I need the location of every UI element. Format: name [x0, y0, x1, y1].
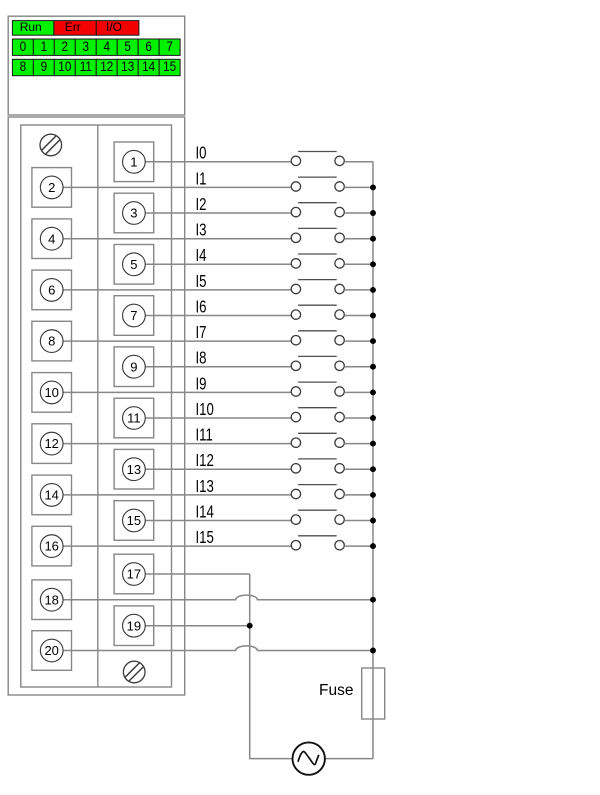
terminal 9 cell: [114, 347, 154, 387]
svg-text:18: 18: [44, 592, 58, 607]
svg-text:15: 15: [163, 58, 176, 74]
junction I6 on supply bus: [370, 313, 376, 319]
junction terminal 20 wire on supply bus: [370, 648, 376, 654]
channel LED 12: [96, 58, 117, 75]
junction I1 on supply bus: [370, 184, 376, 190]
AC source G1: [293, 742, 325, 774]
terminal 14 cell: [32, 475, 72, 515]
terminal 6: [40, 279, 63, 302]
terminal 2 cell: [32, 168, 72, 208]
svg-text:11: 11: [127, 411, 141, 426]
LED label I/O: [96, 20, 139, 35]
mounting screw bottom: [123, 661, 145, 683]
wire contact I4 to supply bus: [344, 263, 373, 265]
terminal 8 cell: [32, 321, 72, 361]
terminal 7: [123, 304, 146, 327]
mounting screw top: [40, 134, 62, 156]
LED label Run: [12, 20, 54, 35]
terminal 1 cell: [114, 142, 154, 182]
wire contact I3 to supply bus: [344, 238, 373, 240]
wire terminal 7 to contact I6: [145, 315, 291, 317]
svg-text:17: 17: [127, 567, 141, 582]
supply bus (right vertical): [372, 162, 374, 759]
wire terminal 17 to node A: [145, 573, 249, 575]
switch contact I2: [291, 203, 344, 217]
svg-text:3: 3: [83, 38, 90, 54]
channel LED 1: [33, 38, 54, 55]
svg-text:0: 0: [20, 38, 27, 54]
svg-text:I7: I7: [196, 323, 207, 342]
wire terminal 13 to contact I12: [145, 468, 291, 470]
wire terminal 4 to contact I3: [63, 238, 291, 240]
svg-text:2: 2: [48, 180, 55, 195]
wire terminal 15 to contact I14: [145, 520, 291, 522]
terminal 17 cell: [114, 554, 154, 594]
terminal 12 cell: [32, 424, 72, 464]
svg-text:I13: I13: [196, 477, 214, 496]
wire contact I11 to supply bus: [344, 443, 373, 445]
svg-text:I0: I0: [196, 144, 207, 163]
junction I4 on supply bus: [370, 261, 376, 267]
terminal 13: [123, 458, 146, 481]
svg-text:I/O: I/O: [106, 20, 122, 34]
svg-text:Err: Err: [65, 20, 81, 34]
wire terminal 20 to supply bus (hop over node A): [63, 646, 373, 651]
wire contact I14 to supply bus: [344, 520, 373, 522]
wire terminal 19 to node A junction: [145, 625, 249, 627]
terminal 2: [40, 176, 63, 199]
svg-text:6: 6: [145, 38, 152, 54]
svg-text:I11: I11: [196, 426, 213, 445]
terminal 5: [123, 253, 146, 276]
switch contact I15: [291, 536, 344, 550]
svg-text:20: 20: [44, 643, 58, 658]
svg-text:I3: I3: [196, 221, 207, 240]
wire terminal 11 to contact I10: [145, 417, 291, 419]
module outer body: [8, 117, 185, 695]
terminal 10 cell: [32, 373, 72, 413]
wire terminal 10 to contact I9: [63, 391, 291, 393]
svg-text:1: 1: [41, 38, 48, 54]
wire contact I15 to supply bus: [344, 545, 373, 547]
junction I14 on supply bus: [370, 518, 376, 524]
svg-text:9: 9: [130, 359, 137, 374]
wire terminal 3 to contact I2: [145, 212, 291, 214]
terminal 15 cell: [114, 501, 154, 541]
channel LED 7: [159, 38, 180, 55]
terminal 4 cell: [32, 219, 72, 259]
terminal 3 cell: [114, 193, 154, 233]
svg-text:5: 5: [130, 257, 137, 272]
svg-text:Run: Run: [20, 20, 42, 34]
switch contact I10: [291, 408, 344, 422]
svg-text:14: 14: [44, 488, 58, 503]
terminal 15: [123, 509, 146, 532]
switch contact I1: [291, 177, 344, 191]
wire contact I8 to supply bus: [344, 366, 373, 368]
svg-text:4: 4: [48, 231, 55, 246]
wire contact I1 to supply bus: [344, 186, 373, 188]
svg-text:9: 9: [41, 58, 48, 74]
module status/LED box: [8, 16, 185, 115]
svg-text:2: 2: [62, 38, 69, 54]
wire terminal 14 to contact I13: [63, 494, 291, 496]
wire contact I6 to supply bus: [344, 315, 373, 317]
switch contact I9: [291, 382, 344, 396]
terminal 16: [40, 535, 63, 558]
junction I5 on supply bus: [370, 287, 376, 293]
svg-text:13: 13: [127, 462, 141, 477]
svg-text:6: 6: [48, 283, 55, 298]
svg-text:I12: I12: [196, 451, 214, 470]
svg-text:I10: I10: [196, 400, 214, 419]
svg-text:I2: I2: [196, 195, 207, 214]
LED label Err: [54, 20, 96, 35]
svg-text:Fuse: Fuse: [319, 682, 353, 699]
svg-text:16: 16: [44, 539, 58, 554]
switch contact I0: [291, 152, 344, 166]
wire terminal 8 to contact I7: [63, 340, 291, 342]
terminal 12: [40, 432, 63, 455]
switch contact I11: [291, 433, 344, 447]
channel LED 9: [33, 58, 54, 75]
channel LED 10: [54, 58, 75, 75]
svg-text:I1: I1: [196, 170, 207, 189]
terminal 14: [40, 484, 63, 507]
channel LED 5: [117, 38, 138, 55]
wire terminal 6 to contact I5: [63, 289, 291, 291]
terminal 7 cell: [114, 296, 154, 336]
wire terminal 9 to contact I8: [145, 366, 291, 368]
fuse F1: [362, 668, 385, 719]
junction I10 on supply bus: [370, 415, 376, 421]
wire terminal 16 to contact I15: [63, 545, 291, 547]
terminal 11: [123, 407, 146, 430]
junction I7 on supply bus: [370, 338, 376, 344]
junction I2 on supply bus: [370, 210, 376, 216]
channel LED 0: [12, 38, 33, 55]
wire AC source to supply bus: [325, 758, 373, 760]
junction I11 on supply bus: [370, 441, 376, 447]
terminal 20 cell: [32, 631, 72, 671]
channel LED 11: [75, 58, 96, 75]
svg-text:5: 5: [124, 38, 131, 54]
switch contact I3: [291, 228, 344, 242]
switch contact I7: [291, 331, 344, 345]
svg-text:15: 15: [127, 513, 141, 528]
channel LED 8: [12, 58, 33, 75]
switch contact I14: [291, 510, 344, 524]
terminal 10: [40, 381, 63, 404]
svg-text:I4: I4: [196, 247, 207, 266]
junction I8 on supply bus: [370, 364, 376, 370]
wire terminal 12 to contact I11: [63, 443, 291, 445]
terminal 13 cell: [114, 449, 154, 489]
svg-text:12: 12: [44, 436, 58, 451]
terminal 1: [123, 150, 146, 173]
svg-text:7: 7: [166, 38, 173, 54]
svg-text:I14: I14: [196, 503, 215, 522]
junction I9 on supply bus: [370, 389, 376, 395]
channel LED 14: [138, 58, 159, 75]
junction I13 on supply bus: [370, 492, 376, 498]
switch contact I12: [291, 459, 344, 473]
svg-text:13: 13: [121, 58, 134, 74]
wire terminal 1 to contact I0: [145, 161, 291, 163]
svg-text:4: 4: [103, 38, 110, 54]
terminal block column divider: [97, 125, 99, 687]
switch contact I6: [291, 305, 344, 319]
svg-text:1: 1: [130, 154, 137, 169]
terminal 18: [40, 588, 63, 611]
svg-text:8: 8: [20, 58, 27, 74]
svg-text:I8: I8: [196, 349, 207, 368]
terminal 19 cell: [114, 606, 154, 646]
wire terminal 18 to supply bus (hop over node A): [63, 595, 373, 600]
terminal 9: [123, 355, 146, 378]
terminal 5 cell: [114, 245, 154, 285]
svg-text:10: 10: [58, 58, 71, 74]
switch contact I13: [291, 485, 344, 499]
terminal 8: [40, 330, 63, 353]
svg-text:12: 12: [100, 58, 113, 74]
channel LED 13: [117, 58, 138, 75]
terminal 16 cell: [32, 526, 72, 566]
svg-text:I5: I5: [196, 272, 207, 291]
svg-text:14: 14: [142, 58, 155, 74]
wire contact I2 to supply bus: [344, 212, 373, 214]
wire contact I7 to supply bus: [344, 340, 373, 342]
svg-text:19: 19: [127, 618, 141, 633]
terminal 4: [40, 227, 63, 250]
terminal 19: [123, 614, 146, 637]
channel LED 2: [54, 38, 75, 55]
node A vertical wire: [250, 574, 292, 759]
terminal 20: [40, 639, 63, 662]
wire contact I13 to supply bus: [344, 494, 373, 496]
svg-text:8: 8: [48, 334, 55, 349]
terminal 18 cell: [32, 580, 72, 620]
wire contact I12 to supply bus: [344, 468, 373, 470]
wire contact I5 to supply bus: [344, 289, 373, 291]
svg-text:I15: I15: [196, 528, 214, 547]
svg-text:7: 7: [130, 308, 137, 323]
wire contact I10 to supply bus: [344, 417, 373, 419]
wire contact I9 to supply bus: [344, 391, 373, 393]
junction I12 on supply bus: [370, 466, 376, 472]
svg-text:I9: I9: [196, 375, 207, 394]
junction terminal 19 wire on node A: [247, 623, 253, 629]
svg-text:11: 11: [80, 58, 92, 74]
wire contact I0 to supply bus: [344, 161, 373, 163]
junction I3 on supply bus: [370, 236, 376, 242]
terminal 11 cell: [114, 398, 154, 438]
terminal 3: [123, 202, 146, 225]
channel LED 3: [75, 38, 96, 55]
switch contact I4: [291, 254, 344, 268]
wire terminal 5 to contact I4: [145, 263, 291, 265]
junction terminal 18 wire on supply bus: [370, 597, 376, 603]
terminal block outline: [21, 125, 172, 687]
channel LED 15: [159, 58, 180, 75]
svg-text:10: 10: [44, 385, 58, 400]
terminal 6 cell: [32, 270, 72, 310]
svg-text:I6: I6: [196, 298, 207, 317]
svg-text:3: 3: [130, 206, 137, 221]
terminal 17: [123, 563, 146, 586]
channel LED 4: [96, 38, 117, 55]
wire terminal 2 to contact I1: [63, 186, 291, 188]
switch contact I8: [291, 356, 344, 370]
switch contact I5: [291, 280, 344, 294]
channel LED 6: [138, 38, 159, 55]
junction I15 on supply bus: [370, 543, 376, 549]
